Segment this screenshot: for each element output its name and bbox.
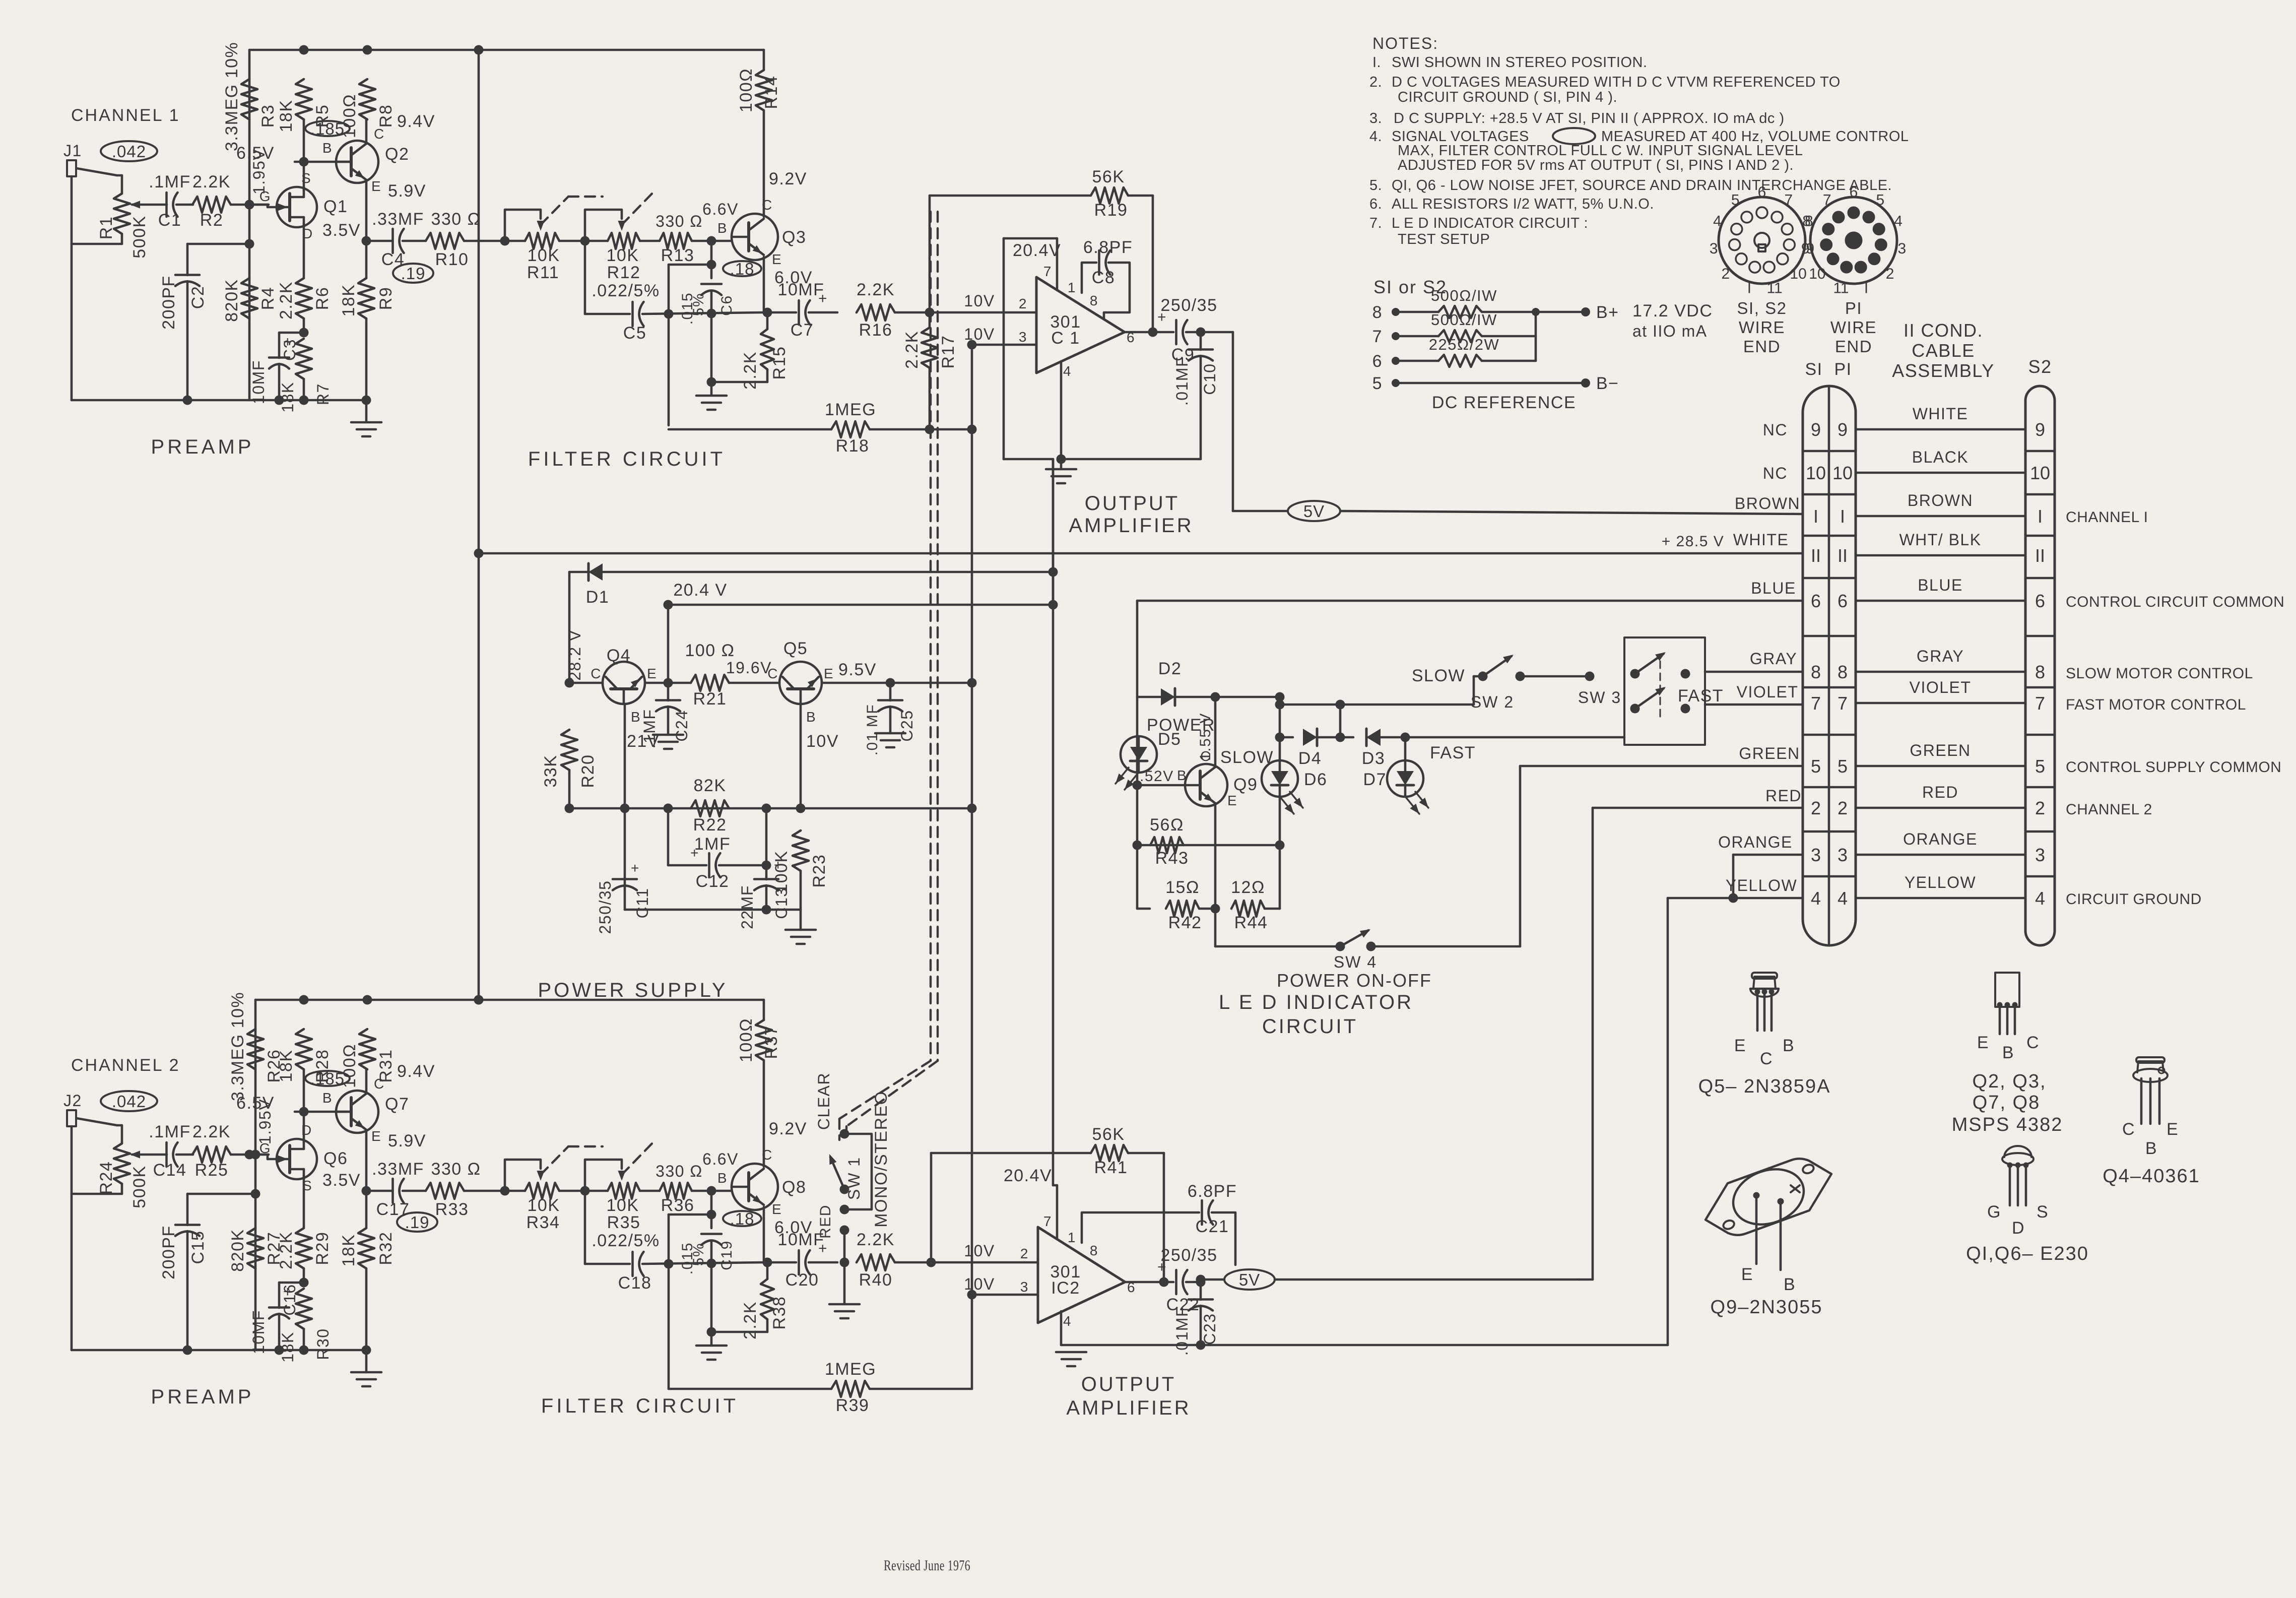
svg-text:R17: R17 (939, 335, 958, 369)
svg-text:IC2: IC2 (1051, 1279, 1080, 1298)
svg-text:B+: B+ (1596, 303, 1619, 322)
svg-text:CLEAR: CLEAR (815, 1072, 833, 1130)
svg-text:9.4V: 9.4V (397, 1062, 435, 1081)
svg-text:2: 2 (1838, 798, 1848, 818)
svg-text:I: I (2038, 506, 2043, 527)
svg-text:+: + (631, 860, 640, 876)
svg-text:3.3MEG 10%: 3.3MEG 10% (228, 992, 247, 1101)
svg-text:.185: .185 (310, 119, 345, 138)
svg-text:BROWN: BROWN (1908, 491, 1973, 509)
svg-text:R2: R2 (200, 211, 223, 230)
svg-text:10: 10 (1809, 266, 1825, 282)
svg-text:B: B (717, 220, 728, 236)
svg-text:+: + (690, 845, 699, 861)
svg-text:12Ω: 12Ω (1231, 878, 1265, 897)
svg-text:.52V: .52V (1140, 768, 1174, 785)
svg-text:R7: R7 (314, 383, 332, 405)
svg-text:R43: R43 (1155, 849, 1189, 868)
svg-text:5: 5 (2035, 756, 2045, 777)
svg-text:L E D INDICATOR CIRCUIT :: L E D INDICATOR CIRCUIT : (1392, 215, 1588, 231)
svg-text:.022/5%: .022/5% (592, 1231, 660, 1250)
svg-text:VIOLET: VIOLET (1910, 678, 1972, 696)
svg-text:SIGNAL VOLTAGES: SIGNAL VOLTAGES (1392, 129, 1529, 145)
svg-text:500K: 500K (130, 215, 149, 258)
svg-text:CHANNEL 1: CHANNEL 1 (71, 106, 180, 125)
svg-text:WHITE: WHITE (1733, 531, 1789, 549)
svg-text:OUTPUT: OUTPUT (1085, 492, 1179, 515)
svg-text:B: B (322, 1090, 333, 1106)
svg-text:18K: 18K (279, 381, 297, 412)
svg-text:C 1: C 1 (1051, 329, 1080, 348)
svg-text:AMPLIFIER: AMPLIFIER (1069, 515, 1193, 537)
svg-text:E: E (772, 251, 782, 267)
svg-text:5: 5 (1876, 192, 1884, 209)
svg-text:SW 1: SW 1 (845, 1157, 863, 1200)
svg-text:10: 10 (1806, 463, 1826, 483)
svg-text:R20: R20 (578, 754, 598, 788)
svg-text:.185: .185 (310, 1069, 345, 1088)
svg-text:L E D INDICATOR: L E D INDICATOR (1219, 991, 1413, 1013)
svg-text:C16: C16 (281, 1284, 299, 1315)
svg-text:B: B (322, 140, 333, 156)
svg-text:R19: R19 (1094, 201, 1128, 220)
svg-text:10MF: 10MF (778, 280, 825, 299)
svg-text:E: E (647, 666, 657, 681)
svg-text:6.6V: 6.6V (702, 1150, 739, 1168)
svg-text:R44: R44 (1234, 913, 1268, 932)
svg-text:SLOW: SLOW (1412, 666, 1465, 685)
svg-text:5: 5 (1811, 756, 1821, 777)
svg-text:Q5: Q5 (783, 639, 808, 658)
svg-text:9.5V: 9.5V (838, 660, 877, 679)
svg-text:CHANNEL I: CHANNEL I (2066, 509, 2148, 526)
svg-text:9: 9 (1811, 419, 1821, 440)
svg-text:C8: C8 (1092, 268, 1115, 287)
svg-text:.18: .18 (730, 260, 755, 278)
svg-text:10V: 10V (964, 325, 995, 343)
svg-text:10MF: 10MF (249, 1310, 268, 1354)
svg-text:R25: R25 (195, 1161, 229, 1180)
svg-text:10K: 10K (607, 1196, 639, 1215)
svg-text:8: 8 (1090, 293, 1098, 308)
svg-text:SI: SI (1805, 360, 1822, 379)
svg-text:Revised June 1976: Revised June 1976 (884, 1557, 970, 1574)
svg-text:ASSEMBLY: ASSEMBLY (1892, 360, 1994, 381)
svg-text:D4: D4 (1298, 749, 1322, 768)
svg-text:7: 7 (1811, 693, 1821, 714)
svg-text:2: 2 (2035, 798, 2045, 818)
svg-text:250/35: 250/35 (596, 880, 614, 934)
svg-text:2.2K: 2.2K (192, 1122, 231, 1141)
svg-text:R40: R40 (859, 1270, 893, 1290)
svg-text:E: E (1741, 1265, 1753, 1284)
svg-text:SI, S2: SI, S2 (1737, 299, 1787, 317)
svg-text:7: 7 (1784, 192, 1793, 209)
svg-text:1.55 V: 1.55 V (1197, 713, 1214, 761)
svg-text:11: 11 (1833, 280, 1849, 297)
svg-text:56K: 56K (1092, 1125, 1125, 1144)
svg-text:C20: C20 (785, 1270, 819, 1290)
svg-text:2.2K: 2.2K (857, 1230, 895, 1249)
svg-text:C14: C14 (153, 1161, 187, 1180)
svg-text:Q1: Q1 (323, 197, 348, 216)
svg-text:MEASURED AT 400 Hz, VOLUME: MEASURED AT 400 Hz, VOLUME CONTROL (1601, 129, 1909, 145)
svg-text:I: I (1840, 506, 1845, 527)
svg-text:MAX, FILTER CONTROL FULL C: MAX, FILTER CONTROL FULL C W. INPUT SIGN… (1398, 143, 1803, 159)
svg-text:.042: .042 (112, 142, 146, 161)
svg-text:20.4V: 20.4V (1004, 1166, 1052, 1185)
svg-text:+: + (818, 290, 828, 307)
svg-text:AMPLIFIER: AMPLIFIER (1066, 1397, 1191, 1419)
svg-text:1MEG: 1MEG (825, 400, 876, 419)
svg-text:R34: R34 (527, 1213, 560, 1232)
svg-text:PI: PI (1845, 299, 1862, 317)
svg-text:RED: RED (1922, 783, 1958, 801)
svg-text:C2: C2 (188, 286, 208, 309)
svg-text:2: 2 (1722, 266, 1730, 282)
svg-text:17.2 VDC: 17.2 VDC (1632, 301, 1713, 321)
svg-text:CONTROL SUPPLY COMMON: CONTROL SUPPLY COMMON (2066, 759, 2281, 776)
svg-text:R18: R18 (836, 436, 870, 456)
svg-text:3: 3 (1710, 240, 1718, 257)
svg-text:7: 7 (1838, 693, 1848, 714)
svg-text:CIRCUIT GROUND: CIRCUIT GROUND (2066, 891, 2202, 908)
svg-text:18K: 18K (339, 1234, 358, 1267)
svg-text:7: 7 (1823, 192, 1831, 209)
svg-text:C: C (2026, 1033, 2040, 1052)
svg-text:3: 3 (1897, 240, 1906, 257)
svg-text:C23: C23 (1201, 1313, 1219, 1345)
svg-text:15Ω: 15Ω (1165, 878, 1200, 897)
svg-text:1: 1 (1068, 1230, 1076, 1245)
svg-text:D3: D3 (1362, 749, 1385, 768)
svg-text:4: 4 (1894, 213, 1903, 230)
svg-text:C1: C1 (158, 211, 181, 230)
svg-text:4: 4 (1063, 363, 1072, 379)
svg-text:WHT/ BLK: WHT/ BLK (1899, 531, 1981, 549)
svg-text:SW 4: SW 4 (1334, 953, 1377, 971)
svg-text:R10: R10 (435, 250, 469, 269)
svg-text:J2: J2 (63, 1092, 82, 1110)
svg-text:PREAMP: PREAMP (151, 436, 254, 458)
svg-text:18K: 18K (279, 1331, 297, 1362)
svg-text:.042: .042 (112, 1092, 146, 1111)
svg-text:2.2K: 2.2K (857, 280, 895, 299)
svg-text:330 Ω: 330 Ω (655, 212, 703, 230)
svg-text:GREEN: GREEN (1910, 741, 1971, 759)
svg-text:ADJUSTED FOR 5V rms AT OUTP: ADJUSTED FOR 5V rms AT OUTPUT ( SI, PINS… (1398, 157, 1794, 173)
svg-text:18K: 18K (339, 284, 358, 317)
svg-text:R35: R35 (607, 1213, 641, 1232)
svg-text:7.: 7. (1369, 215, 1382, 231)
svg-text:C12: C12 (696, 872, 730, 891)
svg-text:.1MF: .1MF (640, 709, 659, 749)
svg-text:B: B (1783, 1036, 1795, 1055)
svg-text:D7: D7 (1363, 770, 1387, 789)
svg-text:1MEG: 1MEG (825, 1360, 876, 1379)
svg-text:GRAY: GRAY (1917, 647, 1964, 665)
svg-text:2.: 2. (1369, 74, 1382, 90)
svg-text:C: C (1760, 1049, 1773, 1068)
svg-text:E: E (1734, 1036, 1746, 1055)
svg-text:5V: 5V (1303, 502, 1325, 521)
svg-text:R41: R41 (1094, 1158, 1128, 1177)
svg-text:R21: R21 (693, 689, 727, 709)
svg-text:II: II (1838, 545, 1848, 566)
svg-text:3.: 3. (1369, 110, 1382, 126)
svg-text:.18: .18 (730, 1209, 755, 1228)
svg-text:Q9–2N3055: Q9–2N3055 (1711, 1297, 1823, 1318)
svg-text:2.2K: 2.2K (277, 281, 296, 319)
svg-text:YELLOW: YELLOW (1726, 876, 1797, 894)
svg-text:GRAY: GRAY (1750, 650, 1797, 668)
svg-text:DC REFERENCE: DC REFERENCE (1432, 393, 1576, 412)
svg-text:C11: C11 (633, 888, 651, 919)
svg-text:7: 7 (1372, 327, 1383, 346)
svg-text:C: C (591, 666, 602, 681)
svg-text:10V: 10V (964, 1242, 995, 1260)
svg-text:E: E (371, 1128, 381, 1144)
svg-text:3: 3 (1020, 1279, 1029, 1295)
svg-text:G: G (259, 188, 271, 204)
svg-text:ALL RESISTORS I/2 WATT, 5%: ALL RESISTORS I/2 WATT, 5% U.N.O. (1392, 196, 1654, 212)
svg-text:6: 6 (1811, 591, 1821, 611)
svg-text:9: 9 (1801, 240, 1810, 257)
svg-text:500Ω/IW: 500Ω/IW (1431, 311, 1497, 329)
svg-text:5V: 5V (1239, 1270, 1260, 1289)
svg-text:C: C (767, 666, 778, 681)
svg-text:10MF: 10MF (249, 360, 268, 404)
svg-text:I: I (1747, 280, 1751, 297)
svg-text:D1: D1 (586, 588, 609, 607)
svg-text:QI, Q6 - LOW NOISE JFET, S: QI, Q6 - LOW NOISE JFET, SOURCE AND DRAI… (1392, 177, 1892, 194)
svg-text:330 Ω: 330 Ω (655, 1162, 703, 1180)
svg-text:3: 3 (1838, 845, 1848, 865)
svg-text:10V: 10V (964, 292, 995, 310)
svg-text:1: 1 (1068, 280, 1076, 295)
svg-text:BROWN: BROWN (1735, 494, 1800, 513)
svg-text:.01 MF: .01 MF (864, 704, 881, 755)
svg-text:6.6V: 6.6V (702, 200, 739, 218)
svg-text:19.6V: 19.6V (726, 659, 772, 677)
svg-text:330 Ω: 330 Ω (431, 210, 481, 229)
svg-text:PREAMP: PREAMP (151, 1386, 254, 1408)
svg-text:C: C (374, 126, 385, 142)
svg-text:END: END (1743, 337, 1781, 356)
svg-text:8: 8 (1838, 662, 1848, 682)
svg-text:Q7: Q7 (385, 1095, 409, 1114)
svg-text:C3: C3 (281, 339, 299, 361)
svg-text:B: B (806, 709, 816, 725)
svg-text:5: 5 (1838, 756, 1848, 777)
svg-text:3: 3 (1019, 329, 1027, 345)
svg-text:225Ω/2W: 225Ω/2W (1429, 336, 1500, 353)
svg-text:I.: I. (1372, 54, 1381, 71)
svg-text:ORANGE: ORANGE (1718, 833, 1793, 851)
svg-text:PI: PI (1834, 360, 1852, 379)
svg-text:56Ω: 56Ω (1150, 815, 1184, 835)
svg-text:10K: 10K (528, 1196, 560, 1215)
svg-text:6.: 6. (1369, 196, 1382, 212)
svg-text:RED: RED (1765, 787, 1802, 805)
svg-text:R6: R6 (313, 287, 332, 310)
svg-text:YELLOW: YELLOW (1905, 873, 1976, 891)
svg-text:6.8PF: 6.8PF (1188, 1182, 1237, 1201)
svg-text:Q5– 2N3859A: Q5– 2N3859A (1698, 1076, 1831, 1097)
svg-text:8: 8 (1811, 662, 1821, 682)
svg-text:4: 4 (1713, 213, 1722, 230)
svg-text:E: E (1977, 1033, 1989, 1052)
svg-text:10: 10 (2030, 463, 2050, 483)
svg-text:CABLE: CABLE (1912, 340, 1975, 361)
svg-text:4: 4 (1811, 888, 1821, 909)
svg-text:C15: C15 (188, 1231, 208, 1264)
svg-text:+ 28.5 V: + 28.5 V (1662, 533, 1725, 550)
svg-text:R24: R24 (97, 1161, 116, 1195)
svg-text:3.5V: 3.5V (322, 1171, 361, 1190)
svg-text:R14: R14 (762, 76, 781, 109)
svg-text:WHITE: WHITE (1913, 405, 1969, 423)
svg-text:R8: R8 (376, 104, 396, 127)
svg-text:RED: RED (817, 1204, 834, 1239)
svg-text:7: 7 (1043, 1213, 1052, 1229)
svg-text:FILTER CIRCUIT: FILTER CIRCUIT (528, 448, 726, 470)
svg-text:2.2K: 2.2K (902, 331, 922, 369)
svg-text:100Ω: 100Ω (737, 68, 756, 112)
svg-text:S2: S2 (2028, 356, 2052, 377)
svg-text:J1: J1 (63, 142, 82, 160)
svg-text:10V: 10V (806, 732, 839, 751)
svg-text:20.4 V: 20.4 V (673, 581, 727, 600)
svg-text:FAST MOTOR CONTROL: FAST MOTOR CONTROL (2066, 696, 2246, 713)
svg-text:18K: 18K (277, 100, 296, 133)
svg-text:.01MF: .01MF (1173, 1306, 1191, 1356)
svg-text:2.2K: 2.2K (741, 1301, 760, 1339)
svg-text:200PF: 200PF (159, 275, 178, 330)
svg-text:R12: R12 (607, 263, 641, 282)
svg-text:R9: R9 (376, 287, 396, 310)
svg-text:R42: R42 (1168, 913, 1202, 932)
svg-text:E: E (1227, 793, 1237, 808)
svg-text:10K: 10K (528, 246, 560, 265)
svg-text:TEST SETUP: TEST SETUP (1398, 231, 1490, 247)
svg-text:R13: R13 (661, 246, 695, 265)
svg-text:11: 11 (1767, 280, 1783, 297)
svg-text:1MF: 1MF (694, 835, 731, 854)
svg-text:SWI SHOWN IN STEREO POSITI: SWI SHOWN IN STEREO POSITION. (1392, 54, 1648, 71)
svg-text:WIRE: WIRE (1739, 318, 1785, 337)
svg-text:S: S (2037, 1202, 2049, 1222)
svg-text:D: D (2012, 1219, 2025, 1238)
svg-text:C18: C18 (618, 1273, 652, 1293)
svg-text:2.2K: 2.2K (192, 172, 231, 191)
svg-text:NC: NC (1763, 421, 1788, 439)
svg-text:500Ω/IW: 500Ω/IW (1431, 287, 1497, 304)
svg-text:28.2 V: 28.2 V (566, 629, 584, 681)
svg-text:C: C (2122, 1120, 2135, 1139)
svg-text:POWER ON-OFF: POWER ON-OFF (1277, 970, 1432, 991)
svg-text:2: 2 (1886, 266, 1894, 282)
svg-text:MONO/STEREO: MONO/STEREO (872, 1091, 891, 1228)
svg-text:SLOW MOTOR CONTROL: SLOW MOTOR CONTROL (2066, 665, 2253, 682)
svg-text:WIRE: WIRE (1830, 318, 1877, 337)
svg-text:Q4–40361: Q4–40361 (2103, 1166, 2200, 1187)
svg-text:VIOLET: VIOLET (1737, 683, 1799, 701)
svg-text:B: B (2002, 1043, 2014, 1062)
svg-text:BLUE: BLUE (1918, 576, 1963, 594)
svg-text:R3: R3 (258, 104, 278, 127)
svg-text:D C SUPPLY: +28.5 V AT SI,: D C SUPPLY: +28.5 V AT SI, PIN II ( APPR… (1394, 110, 1785, 126)
svg-text:8: 8 (1372, 303, 1383, 322)
svg-text:SW 3: SW 3 (1578, 688, 1621, 707)
svg-text:9.4V: 9.4V (397, 112, 435, 131)
svg-text:D5: D5 (1158, 730, 1181, 749)
svg-text:II: II (1811, 545, 1821, 566)
svg-text:4: 4 (2035, 888, 2045, 909)
svg-text:5.: 5. (1369, 177, 1382, 194)
svg-text:+: + (818, 1240, 828, 1257)
svg-text:R1: R1 (97, 216, 116, 239)
svg-text:D2: D2 (1158, 659, 1182, 678)
svg-text:18K: 18K (277, 1050, 296, 1082)
svg-text:8: 8 (1805, 213, 1813, 230)
svg-text:E: E (2167, 1120, 2179, 1139)
svg-text:SLOW: SLOW (1220, 748, 1274, 767)
svg-text:820K: 820K (222, 279, 241, 322)
svg-text:.19: .19 (401, 264, 426, 283)
svg-text:2: 2 (1020, 1246, 1029, 1261)
svg-text:R4: R4 (258, 287, 278, 310)
svg-text:Q3: Q3 (782, 228, 806, 247)
svg-text:END: END (1835, 337, 1872, 356)
svg-text:10K: 10K (607, 246, 639, 265)
svg-text:4: 4 (1838, 888, 1848, 909)
svg-text:250/35: 250/35 (1161, 1246, 1218, 1265)
svg-text:9: 9 (1838, 419, 1848, 440)
svg-text:E: E (824, 666, 834, 681)
svg-text:9.2V: 9.2V (769, 169, 807, 188)
svg-text:CIRCUIT: CIRCUIT (1262, 1015, 1358, 1038)
svg-text:.022/5%: .022/5% (592, 281, 660, 300)
svg-text:9.2V: 9.2V (769, 1119, 807, 1138)
svg-text:500K: 500K (130, 1165, 149, 1208)
svg-text:250/35: 250/35 (1161, 296, 1218, 315)
svg-text:9: 9 (2035, 419, 2045, 440)
svg-text:FAST: FAST (1430, 743, 1476, 762)
svg-text:5: 5 (1731, 192, 1740, 209)
svg-text:8: 8 (1090, 1243, 1098, 1258)
svg-text:R29: R29 (313, 1232, 332, 1265)
svg-text:330 Ω: 330 Ω (431, 1160, 481, 1179)
svg-text:.1MF: .1MF (149, 1122, 190, 1141)
svg-text:2: 2 (1811, 798, 1821, 818)
svg-text:6.5V: 6.5V (236, 1094, 275, 1113)
svg-text:R30: R30 (314, 1328, 332, 1360)
svg-text:Q2: Q2 (385, 145, 409, 164)
svg-text:QI,Q6– E230: QI,Q6– E230 (1966, 1243, 2089, 1264)
svg-text:.01MF: .01MF (1173, 356, 1191, 406)
svg-text:7: 7 (1043, 264, 1052, 279)
svg-text:E: E (371, 178, 381, 194)
svg-text:D C VOLTAGES MEASURED WITH: D C VOLTAGES MEASURED WITH D C VTVM REFE… (1392, 74, 1841, 90)
svg-text:3.3MEG 10%: 3.3MEG 10% (222, 42, 241, 151)
svg-text:.33MF: .33MF (372, 1160, 424, 1179)
svg-text:5: 5 (1372, 374, 1383, 393)
svg-text:C21: C21 (1196, 1217, 1229, 1236)
svg-text:5.9V: 5.9V (388, 1131, 426, 1150)
svg-text:2.2K: 2.2K (741, 351, 760, 390)
svg-text:C6: C6 (718, 295, 735, 315)
